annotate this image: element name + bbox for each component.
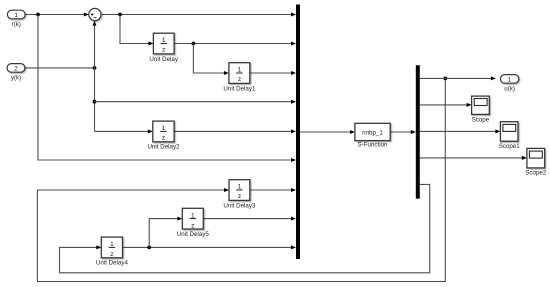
wire y(k) to Unit Delay2 input: [95, 130, 149, 132]
svg-text:y(k): y(k): [11, 74, 21, 81]
wire demux output 2 to Scope: [420, 104, 467, 106]
svg-text:Scope2: Scope2: [525, 170, 547, 177]
node junction on r(k) line: [36, 13, 40, 17]
arrowhead into Unit Delay: [148, 42, 153, 46]
wire r(k) branch down to mux input 6: [38, 15, 291, 161]
inport 2 y(k): [7, 64, 25, 73]
wire branch down to Unit Delay input: [120, 15, 149, 44]
sum minus sign: [94, 17, 97, 19]
arrowhead into Unit Delay4: [96, 245, 101, 249]
wire demux output 1 to u(k) port: [420, 77, 491, 79]
wire mux output to S-Function: [300, 131, 350, 133]
wire Unit Delay1 output to mux input 3: [250, 72, 291, 74]
arrowhead into Unit Delay2: [148, 129, 153, 133]
unit delay UD3: [229, 180, 250, 201]
arrowhead into Scope1: [495, 129, 500, 133]
node junction on y(k) line: [93, 66, 97, 70]
scope Scope1: [500, 122, 518, 142]
arrowhead into u(k) port: [491, 76, 496, 80]
svg-text:Unit Delay2: Unit Delay2: [148, 144, 181, 151]
svg-text:Unit Delay: Unit Delay: [149, 56, 178, 63]
node junction y(k) branch: [93, 100, 97, 104]
arrowhead into Unit Delay1: [224, 71, 229, 75]
outport 1 u(k): [501, 75, 519, 84]
wire branch down to Unit Delay1 input: [193, 44, 224, 74]
arrowhead mux input 3: [291, 71, 296, 75]
arrowhead mux input 5: [291, 129, 296, 133]
svg-text:r(k): r(k): [12, 21, 21, 28]
unit delay UD4: [101, 237, 122, 258]
arrowhead mux input 7: [291, 188, 296, 192]
svg-text:Unit Delay1: Unit Delay1: [223, 85, 256, 92]
svg-text:S-Function: S-Function: [358, 142, 388, 149]
unit delay UD5: [182, 208, 203, 229]
unit delay UD1: [229, 63, 250, 84]
svg-text:Unit Delay4: Unit Delay4: [96, 260, 129, 267]
sum block: [89, 8, 101, 20]
svg-text:z: z: [162, 47, 166, 54]
S-Function U1 nnbp_1: [355, 123, 390, 140]
sum plus sign: [91, 13, 94, 16]
demux bar: [416, 65, 420, 199]
arrowhead into demux: [411, 130, 416, 134]
svg-text:nnbp_1: nnbp_1: [362, 129, 383, 136]
svg-text:Scope1: Scope1: [499, 143, 521, 150]
svg-text:Scope: Scope: [472, 117, 490, 124]
arrowhead mux input 4: [291, 100, 296, 104]
arrowhead into Scope2: [522, 156, 527, 160]
arrowhead into Scope: [467, 103, 472, 107]
wire Unit Delay2 output to mux input 5: [174, 130, 291, 132]
node junction on Unit Delay4 output: [147, 246, 151, 250]
wire S-Function output to demux: [390, 131, 411, 133]
svg-text:z: z: [162, 135, 166, 142]
svg-text:z: z: [191, 223, 195, 230]
svg-text:z: z: [238, 193, 242, 200]
svg-text:Unit Delay5: Unit Delay5: [177, 231, 210, 238]
node junction on sum output: [118, 13, 122, 17]
arrowhead mux input 8: [291, 217, 296, 221]
arrowhead into Unit Delay5: [177, 217, 182, 221]
wire Unit Delay4 output to mux input 9: [123, 246, 291, 248]
scope Scope: [472, 96, 490, 114]
scope Scope2: [527, 148, 545, 168]
wire y(k) to junction: [25, 67, 95, 69]
wire y(k) up to sum minus input: [94, 25, 96, 68]
wire y(k) direct to mux input 4: [95, 101, 291, 103]
node junction on u(k) line: [443, 77, 447, 81]
arrowhead into sum bottom: [93, 21, 97, 26]
arrowhead mux input 1: [291, 13, 296, 17]
wire demux output 4 to Scope2: [420, 157, 523, 159]
unit delay UD2: [153, 121, 174, 142]
svg-text:z: z: [238, 76, 242, 83]
wire outer feedback from u(k) line down and around to Unit Delay3: [37, 78, 445, 281]
wire demux output 3 to Scope1: [420, 130, 496, 132]
arrowhead into S-Function: [350, 130, 355, 134]
svg-text:z: z: [110, 251, 114, 258]
wire inner feedback from demux output 5 around to Unit Delay4: [60, 184, 430, 272]
arrowhead mux input 6: [291, 158, 296, 162]
svg-text:u(k): u(k): [504, 85, 515, 92]
inport 1 r(k): [7, 10, 25, 19]
arrowhead mux input 9: [291, 245, 296, 249]
wire r(k) to sum: [25, 14, 84, 16]
node junction on Unit Delay output: [192, 42, 196, 46]
wire Unit Delay output to mux input 2: [174, 43, 291, 45]
arrowhead into sum: [84, 13, 89, 17]
wire branch up to Unit Delay5 input: [149, 219, 178, 248]
wire Unit Delay5 output to mux input 8: [203, 218, 291, 220]
unit delay UD: [153, 33, 174, 54]
wire y(k) down: [94, 68, 96, 131]
wire Unit Delay3 output to mux input 7: [250, 189, 291, 191]
arrowhead mux input 2: [291, 42, 296, 46]
wire sum output to mux input 1: [101, 14, 291, 16]
svg-text:Unit Delay3: Unit Delay3: [223, 202, 256, 209]
arrowhead into Unit Delay3: [224, 188, 229, 192]
mux bar: [296, 5, 300, 260]
